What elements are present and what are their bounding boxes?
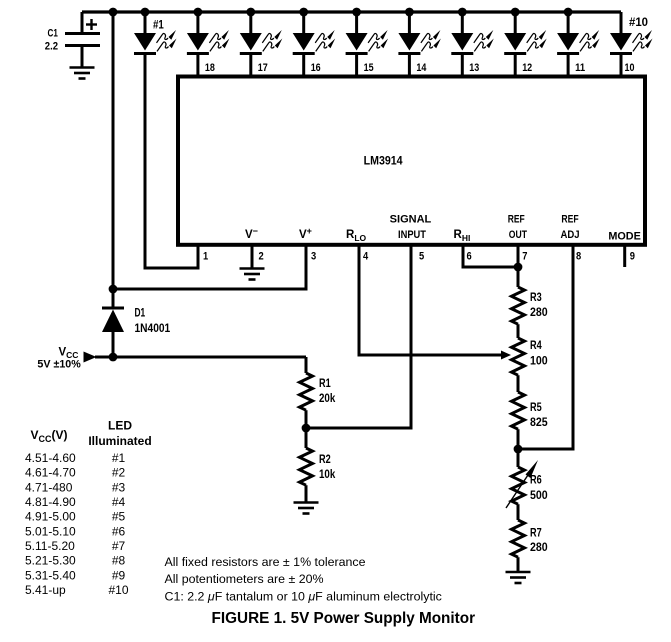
LED #9 — [557, 8, 600, 54]
wire: LED #9 to pin 11 — [567, 54, 570, 77]
wire: R2 to ground — [305, 485, 308, 503]
LED #4 — [293, 8, 336, 54]
wire: LED #5 to pin 15 — [355, 54, 358, 77]
resistor R5 825 — [512, 392, 549, 429]
svg-text:REF: REF — [508, 214, 525, 226]
diode D1 1N4001 — [102, 308, 171, 336]
svg-text:12: 12 — [522, 62, 532, 74]
svg-text:280: 280 — [530, 307, 548, 319]
wire: VCC line — [95, 356, 306, 359]
resistor R2 10k — [300, 448, 336, 485]
svg-text:8: 8 — [576, 250, 581, 262]
svg-text:5.01-5.10: 5.01-5.10 — [25, 524, 76, 538]
svg-text:REF: REF — [561, 214, 579, 226]
svg-text:7: 7 — [522, 250, 527, 262]
svg-text:2: 2 — [259, 250, 264, 262]
svg-text:R2: R2 — [319, 454, 331, 466]
junction dot: V+ line tap — [109, 285, 118, 294]
svg-text:#10: #10 — [108, 583, 128, 597]
IC U1 LM3914 body — [178, 77, 645, 245]
svg-text:4.61-4.70: 4.61-4.70 — [25, 466, 76, 480]
svg-text:100: 100 — [530, 356, 548, 368]
capacitor C1 — [45, 12, 100, 67]
svg-text:#9: #9 — [112, 568, 126, 582]
ground (pin 2) — [240, 269, 265, 280]
svg-text:1N4001: 1N4001 — [135, 323, 171, 335]
svg-text:4.81-4.90: 4.81-4.90 — [25, 495, 76, 509]
node VCC input arrow — [84, 352, 97, 363]
svg-text:All fixed resistors are ± 1% t: All fixed resistors are ± 1% tolerance — [165, 555, 366, 569]
svg-text:#10: #10 — [629, 17, 648, 29]
svg-text:R3: R3 — [530, 292, 542, 304]
wire: R4 to R5 — [517, 375, 520, 392]
svg-text:#4: #4 — [112, 495, 126, 509]
junction dot: R1/R2/signal — [302, 424, 311, 433]
junction dot: rail to D1/V+ feed — [109, 8, 118, 17]
svg-text:9: 9 — [630, 250, 635, 262]
wire: LED #6 to pin 14 — [408, 54, 411, 77]
svg-text:4: 4 — [363, 250, 369, 262]
svg-text:5V ±10%: 5V ±10% — [37, 358, 81, 370]
svg-text:V−: V− — [245, 226, 258, 241]
svg-text:ADJ: ADJ — [560, 229, 579, 241]
svg-text:10: 10 — [625, 62, 635, 74]
svg-text:D1: D1 — [135, 308, 146, 320]
svg-text:R1: R1 — [319, 378, 331, 390]
pin 2 stub (V-) — [251, 245, 254, 268]
svg-text:10k: 10k — [319, 469, 336, 481]
resistor R3 280 — [512, 287, 548, 324]
svg-text:R6: R6 — [530, 475, 542, 487]
wire: LED #3 to pin 17 — [249, 54, 252, 77]
svg-text:6: 6 — [467, 250, 472, 262]
svg-text:1: 1 — [203, 250, 208, 262]
svg-text:RLO: RLO — [346, 229, 367, 243]
pin 9 stub (MODE, n.c.) — [623, 245, 626, 267]
svg-text:R7: R7 — [530, 528, 542, 540]
svg-text:5.21-5.30: 5.21-5.30 — [25, 554, 76, 568]
svg-text:5.31-5.40: 5.31-5.40 — [25, 568, 76, 582]
LED #8 — [504, 8, 547, 54]
LED #1 — [134, 8, 177, 54]
wire: R6 to R7 — [517, 504, 520, 520]
LED #6 — [398, 8, 441, 54]
svg-text:SIGNAL: SIGNAL — [390, 214, 432, 226]
svg-text:15: 15 — [364, 62, 374, 74]
pin 3 stub and V+ wire — [113, 245, 306, 289]
svg-text:4.71-480: 4.71-480 — [25, 480, 73, 494]
table: VCC vs LED illuminated — [25, 419, 152, 598]
wire: LED #2 to pin 18 — [196, 54, 199, 77]
notes — [165, 555, 442, 604]
resistor R7 280 — [512, 520, 548, 557]
pin 8 wire: REF ADJ to R5/R6 junction — [518, 245, 573, 449]
wire: LED #4 to pin 16 — [302, 54, 305, 77]
LED #2 — [187, 8, 230, 54]
svg-text:LM3914: LM3914 — [364, 156, 404, 168]
svg-text:500: 500 — [530, 490, 548, 502]
svg-text:11: 11 — [575, 62, 585, 74]
svg-text:18: 18 — [205, 62, 215, 74]
junction dot: R5/R6/REF ADJ — [514, 445, 523, 454]
ground (below R7) — [506, 572, 531, 583]
svg-text:#1: #1 — [112, 451, 126, 465]
LED #7 — [451, 8, 494, 54]
wire: R1 to R2 — [305, 410, 308, 448]
pin 6 wire: RHI to REF OUT node — [463, 245, 518, 267]
svg-text:5.11-5.20: 5.11-5.20 — [25, 539, 75, 553]
svg-text:R5: R5 — [530, 402, 542, 414]
svg-text:2.2: 2.2 — [45, 41, 58, 53]
junction dot: pin 6 to pin 7 — [514, 263, 523, 272]
svg-text:#6: #6 — [112, 524, 126, 538]
wire: LED #7 to pin 13 — [461, 54, 464, 77]
svg-text:825: 825 — [530, 417, 548, 429]
wire: LED #10 to pin 10 — [620, 54, 623, 77]
svg-text:280: 280 — [530, 542, 548, 554]
wire: top supply rail — [82, 10, 621, 13]
wire: LED #1 cathode to pin 1 — [145, 54, 198, 268]
svg-text:#5: #5 — [112, 510, 126, 524]
svg-text:LED: LED — [108, 419, 132, 433]
svg-text:All potentiometers are ± 20%: All potentiometers are ± 20% — [165, 572, 324, 586]
svg-text:Illuminated: Illuminated — [88, 434, 151, 448]
wire: rail down to D1 cathode — [112, 12, 115, 308]
svg-text:#7: #7 — [112, 539, 126, 553]
ground (below C1) — [70, 68, 95, 79]
svg-text:C1: C1 — [48, 28, 58, 40]
wire: R3 to R4 — [517, 324, 520, 338]
svg-text:14: 14 — [416, 62, 427, 74]
arrowhead on R4 wiper — [501, 351, 511, 360]
svg-text:4.91-5.00: 4.91-5.00 — [25, 510, 76, 524]
svg-text:MODE: MODE — [608, 231, 641, 243]
svg-text:4.51-4.60: 4.51-4.60 — [25, 451, 76, 465]
svg-text:16: 16 — [311, 62, 321, 74]
svg-text:#8: #8 — [112, 554, 126, 568]
pin 5 wire: SIGNAL INPUT to R1/R2 junction — [306, 245, 411, 428]
svg-text:INPUT: INPUT — [398, 229, 426, 241]
pin 7 wire: REF OUT down to R3 — [517, 245, 520, 287]
pin 4 wire: RLO to R4 wiper — [359, 245, 503, 355]
svg-text:RHI: RHI — [454, 229, 471, 243]
svg-text:C1: 2.2 μF tantalum or 10 μF a: C1: 2.2 μF tantalum or 10 μF aluminum el… — [165, 590, 442, 604]
resistor R1 20k — [300, 357, 336, 410]
potentiometer R6 500 — [506, 460, 548, 508]
svg-text:5.41-up: 5.41-up — [25, 583, 66, 597]
svg-text:OUT: OUT — [509, 229, 527, 241]
svg-text:#1: #1 — [153, 19, 164, 31]
ground (below R2) — [294, 503, 319, 514]
svg-text:5: 5 — [419, 250, 424, 262]
LED #10 — [610, 12, 653, 54]
wire: LED #8 to pin 12 — [514, 54, 517, 77]
svg-text:13: 13 — [469, 62, 479, 74]
wire: R5 to R6 — [517, 429, 520, 467]
LED #5 — [346, 8, 389, 54]
svg-text:FIGURE 1. 5V Power Supply Moni: FIGURE 1. 5V Power Supply Monitor — [212, 610, 476, 627]
svg-text:3: 3 — [311, 250, 316, 262]
svg-text:#3: #3 — [112, 480, 126, 494]
svg-text:#2: #2 — [112, 466, 126, 480]
svg-text:17: 17 — [258, 62, 268, 74]
svg-text:20k: 20k — [319, 393, 336, 405]
junction dot: VCC at D1 anode — [109, 353, 118, 362]
wire: R7 to ground — [517, 557, 520, 572]
svg-text:VCC(V): VCC(V) — [31, 428, 68, 444]
svg-text:R4: R4 — [530, 340, 542, 352]
svg-text:V+: V+ — [299, 226, 312, 241]
wire: D1 anode to VCC line — [112, 331, 115, 357]
LED #3 — [240, 8, 282, 54]
potentiometer R4 100 — [512, 338, 548, 375]
